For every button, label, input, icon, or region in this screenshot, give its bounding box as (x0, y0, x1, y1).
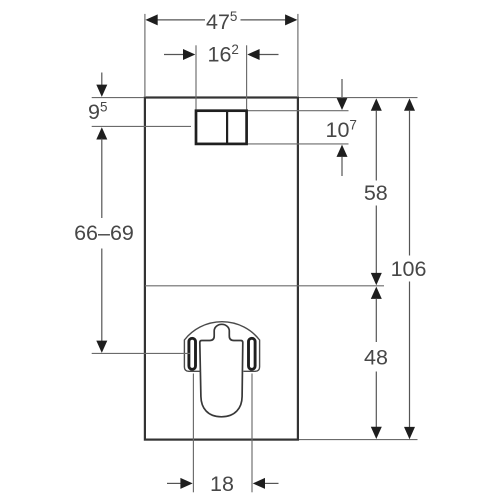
dimension 18: right outside arrow (264, 482, 279, 484)
dimension 48: top arrow (371, 287, 382, 299)
svg-text:58: 58 (364, 181, 388, 205)
dimension 10.7: upper outside arrow (341, 79, 343, 99)
dimension 18: extension lines (192, 374, 194, 493)
dimension 9.5: lower outside arrow (96, 127, 107, 139)
dimension 66-69: bottom arrow (96, 341, 107, 353)
dimension 47.5: dimension line (147, 19, 205, 21)
dimension 9.5: extension lines (92, 97, 144, 99)
dimension 10.7: lower outside arrow (337, 145, 348, 157)
WC mounting flange (outer shield arch) (184, 322, 259, 372)
svg-text:18: 18 (210, 472, 234, 496)
right fixing slot (249, 338, 256, 369)
dimension 66-69: dimension line (101, 139, 103, 219)
dimension 58: bottom arrow (371, 273, 382, 285)
right extension lines (top and bottom of panel) (299, 97, 418, 99)
dimension 106: bottom arrow (404, 427, 415, 439)
dimension 47.5: right arrow (285, 14, 297, 25)
svg-text:48: 48 (364, 346, 388, 370)
dimension 48: bottom arrow (371, 427, 382, 439)
panel outline (main rectangle) (145, 98, 298, 440)
dimension 9.5: upper outside arrow (101, 73, 103, 87)
dimension 16.2: right outside arrow (259, 54, 279, 56)
svg-text:106: 106 (391, 257, 427, 281)
flush plate divider (226, 111, 228, 144)
dimension 66-69: bottom extension line (92, 352, 190, 354)
mid extension line (panel centre shelf) (145, 285, 384, 287)
dimension 106: top arrow (404, 98, 415, 110)
dimension 18: left outside arrow (167, 482, 182, 484)
dimension 16.2: extension lines (195, 45, 197, 109)
dimension 58: top arrow (371, 98, 382, 110)
WC pan outline (bowl with neck) (200, 324, 243, 417)
dimension 10.7: extension lines (248, 110, 349, 112)
dimension 16.2: left outside arrow (164, 54, 184, 56)
dimension 47.5: left arrow (145, 14, 157, 25)
dimension 47.5: extension lines (144, 14, 146, 96)
left fixing slot (189, 338, 196, 369)
flush plate (196, 111, 247, 144)
svg-text:66–69: 66–69 (74, 221, 134, 245)
